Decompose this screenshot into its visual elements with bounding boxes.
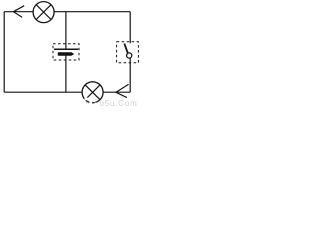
- wire bottom rail right segment: [103, 91, 130, 93]
- current arrow on bottom wire (points left): [116, 84, 129, 97]
- wire top rail middle segment: [54, 11, 130, 13]
- watermark: [85, 98, 138, 109]
- current arrow on top wire (points left): [13, 6, 24, 18]
- battery G positive plate (long thin): [54, 48, 78, 50]
- lamp L2 (bottom): [82, 82, 103, 103]
- wire bottom rail left segment: [4, 91, 82, 93]
- wire left rail: [3, 12, 5, 93]
- switch S selection box (dashed): [117, 42, 139, 63]
- wire top rail left segment: [4, 11, 33, 13]
- battery G selection box (dashed): [53, 44, 79, 60]
- wire right rail lower: [129, 58, 131, 93]
- wire right rail upper: [129, 12, 131, 44]
- switch S lever: [124, 44, 128, 54]
- svg-text:o5u.Com: o5u.Com: [100, 99, 138, 107]
- lamp L1 (top): [33, 2, 54, 23]
- battery G negative plate (short thick): [58, 52, 75, 56]
- switch S pivot contact circle: [127, 53, 132, 58]
- wire middle branch lower: [65, 55, 67, 92]
- wire middle branch upper: [65, 12, 67, 50]
